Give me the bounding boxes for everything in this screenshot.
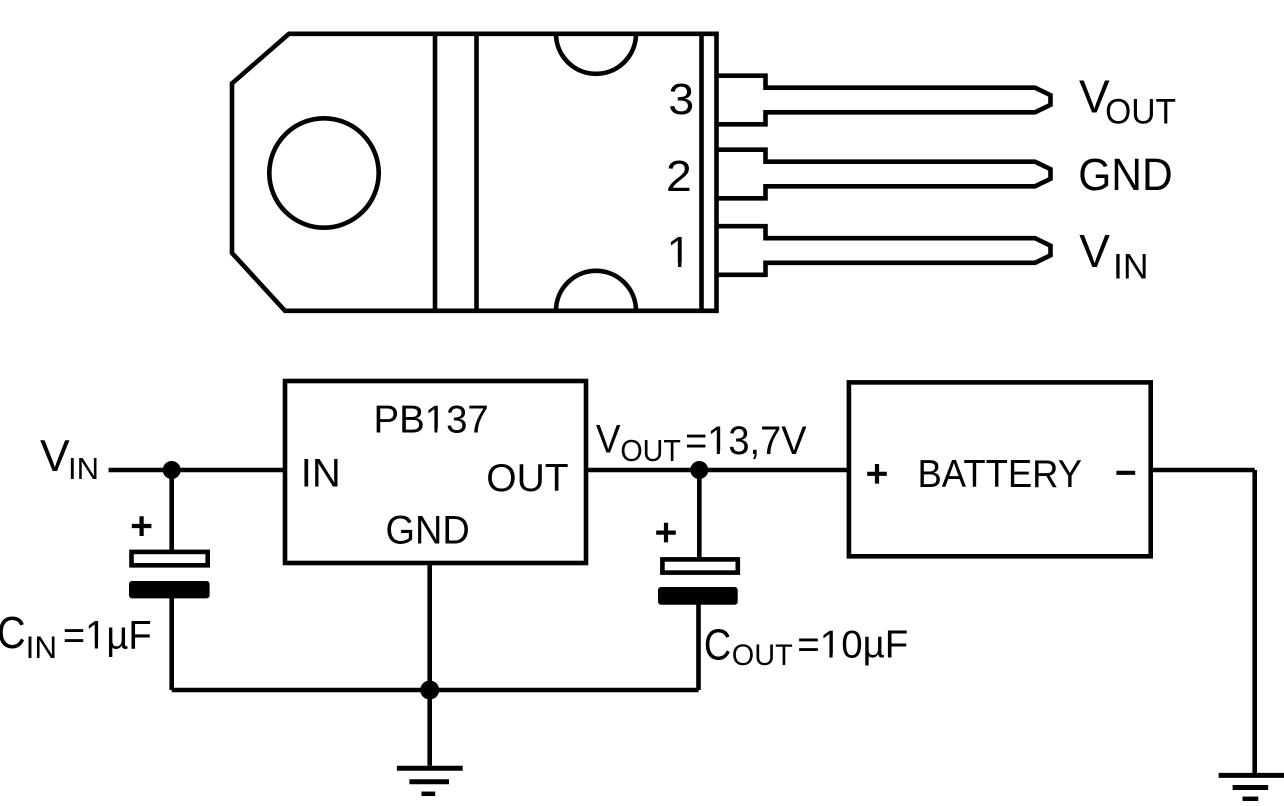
svg-text:=13,7V: =13,7V (685, 419, 807, 463)
regulator package U1 body outline (232, 34, 717, 311)
mounting hole (269, 118, 378, 227)
svg-text:=1µF: =1µF (63, 614, 152, 658)
top notch semicircle (556, 34, 636, 74)
battery minus sign (1116, 471, 1135, 475)
svg-text:OUT: OUT (620, 434, 681, 468)
regulator U1 PB137 box (285, 381, 586, 563)
package tab separation line right (474, 34, 479, 311)
svg-text:C: C (704, 622, 731, 670)
wire COUT down to bottom rail (696, 603, 701, 690)
battery plus sign (867, 464, 887, 484)
wire battery to right drop (1151, 468, 1255, 473)
svg-text:OUT: OUT (486, 457, 568, 500)
svg-text:IN: IN (1113, 247, 1149, 287)
svg-text:3: 3 (668, 75, 694, 124)
capacitor CIN bottom plate (129, 581, 210, 598)
regulator label PB137 (374, 398, 489, 441)
package body right inner line (699, 34, 704, 311)
svg-text:OUT: OUT (732, 639, 793, 672)
node A junction dot (163, 461, 181, 479)
svg-text:PB137: PB137 (374, 398, 489, 441)
capacitor CIN plus sign (132, 516, 152, 536)
ground symbol right bar 3 (1243, 797, 1259, 802)
capacitor COUT value label (704, 622, 908, 672)
pin 2 (718, 150, 1051, 199)
svg-text:IN: IN (26, 630, 57, 665)
wire regulator OUT to battery (586, 468, 849, 473)
svg-text:V: V (40, 432, 70, 481)
capacitor COUT bottom plate (658, 587, 738, 605)
node B ground junction dot (420, 681, 439, 700)
capacitor CIN value label (0, 607, 152, 665)
svg-text:2: 2 (666, 152, 692, 201)
svg-text:IN: IN (301, 452, 341, 496)
svg-text:1: 1 (667, 228, 691, 277)
ground symbol left bar 2 (409, 779, 449, 784)
pin 3 (718, 76, 1051, 125)
wire node A down to CIN (169, 470, 174, 553)
ground symbol left bar 3 (422, 792, 436, 797)
ground symbol right bar 1 (1219, 773, 1284, 778)
capacitor COUT plus sign (656, 523, 676, 543)
svg-text:C: C (0, 607, 26, 658)
wire CIN down to bottom rail (169, 597, 174, 690)
svg-text:GND: GND (386, 509, 470, 553)
svg-text:IN: IN (68, 451, 99, 486)
svg-text:GND: GND (1078, 149, 1173, 200)
wire regulator GND down (427, 563, 432, 766)
svg-text:OUT: OUT (1105, 92, 1176, 131)
battery B1 box (849, 382, 1151, 556)
package tab separation line left (433, 34, 438, 311)
wire bottom ground rail (172, 688, 699, 693)
pin 1 (718, 226, 1051, 275)
wire right drop down (1252, 470, 1257, 773)
capacitor CIN top plate (132, 552, 208, 565)
svg-text:V: V (1079, 225, 1110, 277)
svg-text:V: V (596, 418, 621, 462)
svg-text:BATTERY: BATTERY (918, 453, 1083, 496)
ground symbol right bar 2 (1233, 785, 1269, 790)
wire node VOUT down to COUT (697, 470, 702, 560)
svg-text:=10µF: =10µF (797, 624, 908, 667)
capacitor COUT top plate (662, 559, 737, 572)
ground symbol left bar 1 (397, 766, 463, 771)
bottom notch semicircle (556, 271, 636, 311)
pin number 1 (667, 228, 691, 277)
node VOUT junction dot (690, 461, 708, 479)
wire VIN input rail (109, 468, 285, 473)
